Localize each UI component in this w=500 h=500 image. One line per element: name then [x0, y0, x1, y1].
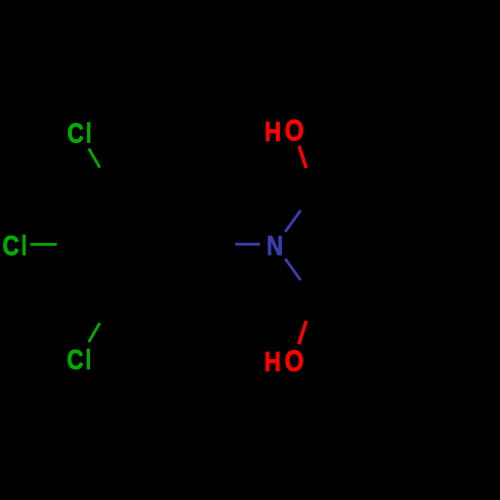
bond O-C lower hydroxyl (oxygen half) [299, 321, 307, 344]
svg-text:O: O [285, 115, 304, 147]
svg-text:l: l [21, 231, 26, 262]
bond Cl1-C3 (chlorine half) [89, 149, 100, 168]
svg-text:H: H [265, 117, 282, 147]
svg-text:l: l [86, 345, 91, 376]
svg-text:N: N [267, 231, 284, 261]
bond N-C upper ring (nitrogen half) [285, 210, 300, 231]
bond O-C upper hydroxyl (oxygen half) [299, 146, 306, 168]
svg-text:C: C [67, 345, 84, 375]
bond Cl3-C5 (chlorine half) [89, 323, 100, 342]
svg-text:H: H [264, 347, 281, 377]
bond Cl2-C4 (chlorine half) [31, 243, 57, 246]
bond N-C1 aryl (nitrogen half) [235, 243, 260, 246]
bond N-C lower ring (nitrogen half) [285, 259, 300, 280]
svg-text:C: C [67, 119, 84, 149]
svg-text:O: O [285, 345, 304, 377]
svg-text:C: C [3, 231, 20, 261]
svg-text:l: l [86, 119, 91, 150]
